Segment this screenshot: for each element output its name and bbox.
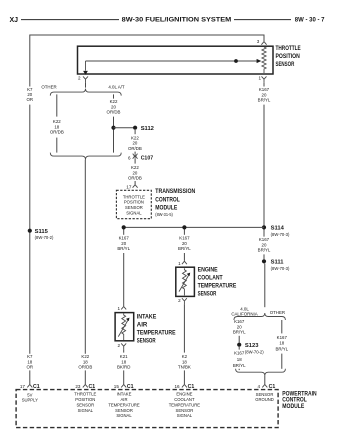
- powertrain control module name: [282, 390, 317, 410]
- wire K21 to PCM pin 15: [123, 370, 125, 384]
- wire K167 to ECT: [183, 230, 185, 235]
- svg-text:BR/YL: BR/YL: [117, 246, 130, 251]
- svg-text:SENSOR: SENSOR: [198, 291, 217, 298]
- svg-text:OR/DB: OR/DB: [107, 110, 121, 115]
- svg-text:CONTROL: CONTROL: [155, 196, 180, 203]
- label K22 20 OR/DB (C107 to TCM): [128, 165, 142, 180]
- svg-text:INTAKE: INTAKE: [137, 314, 157, 321]
- svg-text:17: 17: [20, 384, 26, 389]
- svg-text:SIGNAL: SIGNAL: [78, 408, 94, 413]
- svg-text:1: 1: [117, 306, 120, 311]
- svg-text:THROTTLE: THROTTLE: [74, 392, 96, 397]
- svg-text:SENSOR: SENSOR: [115, 408, 133, 413]
- svg-text:4: 4: [257, 384, 260, 389]
- label K167 20 BR/YL (S114 to S111): [263, 230, 265, 237]
- svg-text:(8W-70-2): (8W-70-2): [35, 235, 54, 240]
- TPS wiper arrowhead: [257, 59, 262, 63]
- wire K2: [183, 304, 185, 352]
- wire california branch: [238, 336, 240, 343]
- svg-text:SIGNAL: SIGNAL: [126, 211, 142, 216]
- TPS pin 1 connector Y: [262, 76, 267, 82]
- header: page id XJ: [10, 17, 19, 24]
- label K167 18 BR/YL (below S123): [233, 350, 246, 368]
- svg-text:1: 1: [178, 261, 181, 266]
- svg-text:OR/DB: OR/DB: [78, 365, 92, 370]
- svg-text:CALIFORNIA: CALIFORNIA: [231, 312, 257, 317]
- svg-text:ENGINE: ENGINE: [198, 267, 218, 274]
- TPS pin 2 connector Y: [83, 76, 88, 82]
- svg-text:SENSOR: SENSOR: [176, 408, 194, 413]
- wire C107 down: [134, 159, 136, 164]
- svg-text:ENGINE: ENGINE: [176, 392, 192, 397]
- svg-text:XJ: XJ: [10, 17, 19, 24]
- TCM pin 17 label: [126, 184, 132, 189]
- PCM pin 16: [174, 384, 180, 389]
- header rule left: [21, 19, 119, 21]
- svg-text:TEMPERATURE: TEMPERATURE: [169, 402, 201, 407]
- ground options split brace: [234, 313, 286, 320]
- label K21 18 BK/RD: [117, 354, 130, 369]
- PCM pin 4: [257, 384, 260, 389]
- TPS internal resistor (potentiometer element): [262, 47, 266, 73]
- svg-text:BR/YL: BR/YL: [258, 248, 271, 253]
- PCM function label: 5V supply: [22, 392, 38, 402]
- engine coolant temperature sensor box: [176, 267, 195, 296]
- svg-text:K167: K167: [277, 335, 288, 340]
- wire S112 down: [134, 130, 136, 134]
- wire K167 to IAT: [123, 230, 125, 235]
- transmission control module name: [155, 188, 195, 217]
- wire OTHER ground branch: [281, 320, 283, 333]
- wire S111 down to ground options: [264, 264, 266, 308]
- PCM pin 17: [20, 384, 26, 389]
- ECT pin 2 label: [178, 298, 181, 303]
- svg-text:SENSOR: SENSOR: [276, 61, 295, 68]
- splice S123: [237, 343, 241, 347]
- engine coolant temperature sensor name: [198, 267, 237, 298]
- svg-text:SENSOR: SENSOR: [76, 402, 94, 407]
- label K22 20 OR/DB: [107, 99, 121, 114]
- splice S112: [133, 126, 137, 130]
- PCM function label: throttle position sensor signal: [74, 392, 96, 413]
- wire K167 to PCM pin 4: [264, 376, 266, 385]
- svg-text:COOLANT: COOLANT: [174, 397, 195, 402]
- throttle position sensor: pin 3 label: [257, 39, 260, 44]
- wire K7 20 OR: from TPS pin 3 up, left across top, down left side: [30, 35, 264, 87]
- throttle position sensor name: [276, 45, 301, 68]
- label K22 18 OR/DB (lower): [78, 354, 92, 369]
- svg-text:18: 18: [237, 357, 242, 362]
- ground options labels 4.0L CALIFORNIA / OTHER: [231, 306, 285, 316]
- wire K7 to PCM pin 17: [29, 370, 31, 384]
- svg-text:K167: K167: [234, 350, 245, 355]
- svg-text:SENSOR: SENSOR: [125, 205, 143, 210]
- wire TPS pin 2 down to options split: [85, 83, 87, 88]
- TPS wiper wire with junction dot: [86, 60, 258, 62]
- label K22 20 OR/DB (S112 to C107): [128, 136, 142, 151]
- wire S123 down: [238, 347, 240, 350]
- IAT pin 2 label: [117, 343, 120, 348]
- wire down to ECT pin 1: [183, 253, 185, 261]
- svg-text:BR/YL: BR/YL: [178, 246, 191, 251]
- svg-text:2: 2: [117, 343, 120, 348]
- powertrain control module dashed box: [16, 390, 278, 428]
- K167 ground bus line: [124, 226, 264, 228]
- PCM pin 15: [114, 384, 120, 389]
- splice S112 junction on branch: [111, 126, 115, 130]
- svg-text:1: 1: [258, 76, 261, 81]
- svg-text:17: 17: [126, 184, 132, 189]
- svg-text:POSITION: POSITION: [124, 200, 144, 205]
- svg-text:6: 6: [128, 155, 131, 160]
- IAT pin 1 connector chevron: [121, 306, 126, 309]
- svg-text:GROUND: GROUND: [255, 397, 274, 402]
- PCM function label: sensor ground: [255, 392, 274, 402]
- svg-text:OTHER: OTHER: [270, 310, 285, 315]
- intake air temperature sensor box: [115, 313, 134, 341]
- svg-text:S123: S123: [245, 343, 259, 349]
- label K7 20 OR (upper): [27, 87, 34, 102]
- label K167 18 BR/YL (other branch): [275, 335, 288, 352]
- PCM function label: intake air temperature sensor signal: [108, 392, 140, 419]
- svg-text:S115: S115: [35, 229, 49, 235]
- svg-text:SUPPLY: SUPPLY: [22, 397, 38, 402]
- IAT pin 2 connector Y: [121, 343, 126, 349]
- wire 4.0L A/T branch lower: [113, 117, 115, 153]
- IAT pin 1 label: [117, 306, 120, 311]
- svg-text:(8W-70-2): (8W-70-2): [245, 349, 264, 354]
- svg-text:8W-30 FUEL/IGNITION SYSTEM: 8W-30 FUEL/IGNITION SYSTEM: [122, 17, 232, 24]
- label K2 18 TN/BK: [178, 354, 191, 369]
- ECT thermistor element: [182, 268, 186, 295]
- svg-text:S111: S111: [271, 260, 285, 266]
- TCM pin 17 connector chevron: [133, 185, 138, 188]
- svg-text:OR/DB: OR/DB: [128, 146, 142, 151]
- wire to TCM pin 17: [134, 181, 136, 184]
- wire K2 to PCM pin 16: [183, 370, 185, 384]
- wire K7 continues down: [29, 105, 31, 354]
- ECT pin 1 label: [178, 261, 181, 266]
- ECT pin 2 connector Y: [182, 298, 187, 304]
- junction to ECT: [182, 225, 186, 229]
- throttle position sensor: pin 3 connector chevron: [261, 42, 266, 45]
- svg-text:COOLANT: COOLANT: [198, 275, 223, 282]
- wire to splice S112: [114, 127, 136, 129]
- wire california branch to merge: [238, 369, 240, 370]
- svg-text:2: 2: [178, 298, 181, 303]
- wire K21: [123, 349, 125, 352]
- svg-text:4.0L A/T: 4.0L A/T: [108, 84, 125, 89]
- header title 8W-30 FUEL/IGNITION SYSTEM: [122, 17, 232, 24]
- svg-text:15: 15: [114, 384, 120, 389]
- junction to IAT: [122, 225, 126, 229]
- svg-text:SIGNAL: SIGNAL: [116, 413, 132, 418]
- svg-text:THROTTLE: THROTTLE: [276, 45, 301, 52]
- TPS wiper drop to pin 2 with exit arrow: [85, 61, 87, 71]
- TPS pin 2 label: [78, 76, 81, 81]
- svg-text:TN/BK: TN/BK: [178, 365, 191, 370]
- header rule right: [234, 19, 291, 21]
- option label 4.0L A/T: [108, 84, 125, 89]
- svg-text:SENSOR: SENSOR: [137, 338, 156, 345]
- svg-text:16: 16: [174, 384, 180, 389]
- splice S111: [262, 259, 266, 263]
- svg-text:TEMPERATURE: TEMPERATURE: [108, 402, 140, 407]
- ground options merge brace: [236, 369, 286, 376]
- svg-text:AIR: AIR: [121, 397, 128, 402]
- svg-text:OR/DB: OR/DB: [50, 130, 64, 135]
- IAT thermistor element: [122, 314, 126, 341]
- wire OTHER branch lower: [56, 138, 58, 153]
- label K22 18 OR/DB: [50, 119, 64, 134]
- svg-text:(8W-70-3): (8W-70-3): [271, 266, 290, 271]
- svg-text:POSITION: POSITION: [276, 53, 301, 60]
- svg-text:8W - 30 - 7: 8W - 30 - 7: [295, 17, 325, 24]
- wire K22 18 OR/DB (OTHER branch): [56, 94, 58, 116]
- wire other branch to merge: [281, 354, 283, 369]
- connector C107 symbol, cavity 6: [133, 153, 138, 158]
- svg-text:18: 18: [279, 341, 284, 346]
- ECT pin 1 connector chevron: [182, 261, 187, 264]
- svg-text:S114: S114: [271, 226, 285, 232]
- svg-text:TRANSMISSION: TRANSMISSION: [155, 188, 195, 195]
- svg-text:TEMPERATURE: TEMPERATURE: [137, 330, 176, 337]
- svg-text:BR/YL: BR/YL: [275, 347, 288, 352]
- label K7 18 OR (lower): [27, 354, 34, 369]
- svg-text:(8W-31-5): (8W-31-5): [155, 212, 173, 217]
- svg-text:OTHER: OTHER: [41, 84, 56, 89]
- wire down to IAT pin 1: [123, 253, 125, 306]
- label K167 20 BR/YL (below TPS): [258, 87, 271, 102]
- header: page number 8W - 30 - 7: [295, 17, 325, 24]
- wire to S111: [263, 254, 265, 259]
- label K167 20 BR/YL (IAT branch): [117, 236, 130, 251]
- svg-text:MODULE: MODULE: [155, 204, 177, 211]
- svg-text:POSITION: POSITION: [75, 397, 95, 402]
- splice S114: [262, 225, 266, 229]
- wire K22 merged down to PCM: [84, 160, 86, 354]
- intake air temperature sensor name: [137, 314, 176, 345]
- transmission control module dashed box: [116, 190, 151, 218]
- svg-text:BR/YL: BR/YL: [233, 363, 246, 368]
- option label OTHER: [41, 84, 56, 89]
- wire K167 from TPS pin 1: [263, 83, 265, 87]
- splice S115: [28, 229, 32, 233]
- label K167 20 BR/YL (ECT branch): [178, 236, 191, 251]
- svg-text:OR/DB: OR/DB: [128, 176, 142, 181]
- options split brace (OTHER / 4.0L A/T): [50, 89, 121, 96]
- svg-text:OR: OR: [27, 97, 34, 102]
- wire K167 down to S114: [263, 105, 265, 226]
- svg-text:23: 23: [75, 384, 81, 389]
- svg-text:BR/YL: BR/YL: [233, 330, 246, 335]
- svg-text:THROTTLE: THROTTLE: [123, 194, 145, 199]
- svg-text:3: 3: [257, 39, 260, 44]
- svg-text:2: 2: [78, 76, 81, 81]
- wire K22 to PCM pin 23: [84, 370, 86, 384]
- TPS pin 1 label: [258, 76, 261, 81]
- svg-text:BK/RD: BK/RD: [117, 365, 130, 370]
- TCM function label: throttle position sensor signal: [123, 194, 145, 215]
- svg-text:TEMPERATURE: TEMPERATURE: [198, 283, 237, 290]
- wire to C107: [134, 152, 136, 154]
- svg-text:AIR: AIR: [137, 322, 148, 329]
- PCM function label: engine coolant temperature sensor signal: [169, 392, 201, 419]
- options merge brace (to PCM pin 23): [50, 153, 121, 160]
- svg-text:S112: S112: [141, 126, 154, 132]
- svg-text:SIGNAL: SIGNAL: [177, 413, 193, 418]
- throttle position sensor U1 box: [78, 46, 274, 74]
- svg-text:C107: C107: [141, 156, 154, 162]
- PCM pin 23: [75, 384, 81, 389]
- svg-text:BR/YL: BR/YL: [258, 98, 271, 103]
- wire K22 20 OR/DB (4.0L A/T branch): [113, 94, 115, 98]
- svg-text:INTAKE: INTAKE: [117, 392, 132, 397]
- svg-text:OR: OR: [27, 365, 34, 370]
- label K167 20 BR/YL (california branch): [233, 319, 246, 334]
- svg-text:MODULE: MODULE: [282, 403, 304, 410]
- svg-text:(8W-70-3): (8W-70-3): [271, 232, 290, 237]
